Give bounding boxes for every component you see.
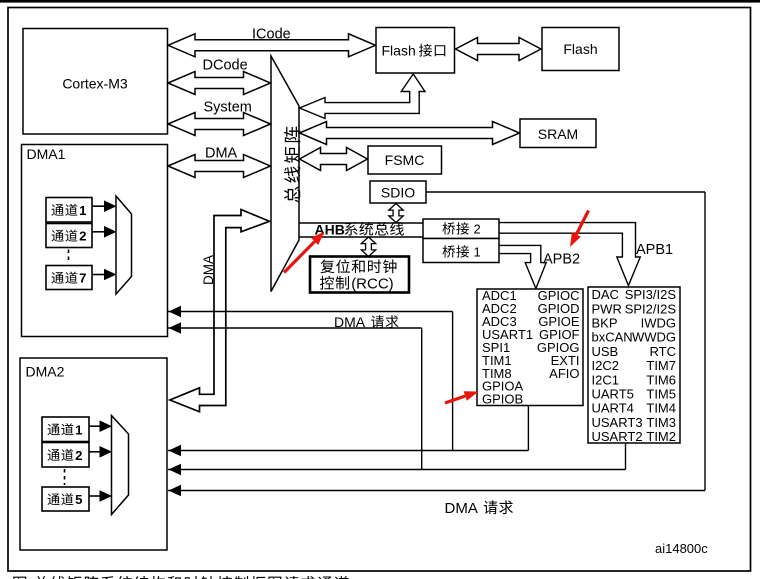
svg-text:ai14800c: ai14800c [655,541,708,556]
svg-text:USART2: USART2 [592,429,643,444]
svg-text:TIM5: TIM5 [646,387,676,402]
svg-text:USB: USB [592,344,619,359]
mux trapezoid DMA2 [112,416,129,515]
wire DMA request L2 [168,327,422,329]
red annotation arrow 2 [576,211,588,235]
wire DMA2-CH1 to mux [89,425,101,427]
svg-text:2: 2 [75,448,82,463]
svg-text:WWDG: WWDG [632,330,676,345]
svg-text:System: System [204,100,252,116]
wire DMA request into DMA2 (from rail) [168,490,705,492]
svg-text:GPIOB: GPIOB [482,392,523,407]
svg-text:DMA1: DMA1 [27,146,66,162]
svg-text:SPI2/I2S: SPI2/I2S [625,301,677,316]
block bridge2 [423,219,499,239]
svg-text:RTC: RTC [650,344,676,359]
top rule [0,0,760,3]
block DMA2 [20,358,167,550]
wire DMA request L3 [168,450,528,452]
block Cortex-M3 [23,29,168,135]
block APB2 peripherals [477,289,583,406]
arrow AHB-RCC [361,237,375,257]
arrow SDIO-AHB [389,204,403,223]
svg-text:1: 1 [474,245,481,260]
svg-text:TIM7: TIM7 [646,358,676,373]
block DMA1 [22,145,168,337]
svg-text:IWDG: IWDG [641,316,676,331]
bus matrix trapezoid [271,56,299,292]
svg-text:PWR: PWR [592,301,622,316]
svg-text:TIM6: TIM6 [646,372,676,387]
bus arrow matrix to Flash interface [300,74,426,119]
svg-text:bxCAN: bxCAN [592,330,633,345]
svg-text:DCode: DCode [203,58,248,74]
bus arrow ICode [168,34,376,57]
svg-text:(RCC): (RCC) [351,276,394,293]
svg-text:SRAM: SRAM [538,126,578,142]
bus arrow APB2 [499,245,546,288]
block SRAM [520,119,596,148]
svg-text:2: 2 [474,222,481,237]
svg-text:USART3: USART3 [592,415,643,430]
channel box DMA2-CH5 [42,487,89,511]
svg-text:I2C1: I2C1 [592,372,619,387]
wire DMA request L1 [168,311,453,313]
svg-text:AFIO: AFIO [549,366,579,381]
svg-text:Flash: Flash [382,43,416,59]
block SDIO [370,181,426,203]
wire DMA1-CH2 to mux [92,231,105,233]
svg-text:Cortex-M3: Cortex-M3 [62,76,128,92]
svg-text:FSMC: FSMC [385,152,425,168]
svg-text:ICode: ICode [252,27,291,43]
wire APB2 box to L3 [527,406,529,451]
channel box DMA1-CH2 [46,224,92,248]
svg-text:DMA2: DMA2 [26,364,65,380]
wire AHB bus upper [299,222,423,224]
svg-text:TIM2: TIM2 [646,429,676,444]
wire DMA request L4 [168,469,626,471]
svg-text:TIM3: TIM3 [646,415,676,430]
svg-text:DMA: DMA [201,255,216,285]
svg-text:TIM4: TIM4 [646,401,676,416]
caption stub (clipped) [13,577,26,579]
channel box DMA2-CH2 [42,443,89,468]
block APB1 peripherals [588,287,680,443]
channel box DMA2-CH1 [42,417,89,442]
svg-text:1: 1 [75,422,82,437]
mux trapezoid DMA1 [116,196,132,294]
svg-text:Flash: Flash [563,41,597,57]
bus arrow SRAM [300,122,520,145]
wire DMA1-CH7 to mux [92,274,105,276]
wire APB1 box to L4 [625,443,627,470]
bus arrow DMA1-to-matrix [168,155,271,178]
wire L1 drop [452,312,454,451]
bus arrow APB1 [499,223,640,286]
bus arrow FSMC [300,148,368,171]
svg-text:APB2: APB2 [543,252,580,268]
wire DMA1-CH1 to mux [92,205,105,207]
dashed link DMA1 channels [68,250,70,264]
wire DMA2-CH2 to mux [89,451,101,453]
svg-text:DMA: DMA [205,146,238,162]
bus matrix label [284,186,300,202]
svg-text:5: 5 [75,492,82,507]
wire DMA2-CH5 to mux [89,495,101,497]
wire right rail down [704,192,706,491]
wire L2 drop [421,328,423,470]
channel box DMA1-CH1 [46,198,92,223]
block RCC [310,257,409,293]
svg-text:BKP: BKP [592,316,618,331]
dashed link DMA2 channels [64,469,66,485]
svg-text:1: 1 [79,203,86,218]
block FSMC [368,146,442,174]
svg-text:DAC: DAC [592,287,619,302]
wire SDIO to right rail [426,191,705,193]
red annotation arrow 1 [284,242,315,273]
channel box DMA1-CH7 [46,266,92,290]
svg-text:UART4: UART4 [592,401,634,416]
bus arrow FlashIF-Flash [456,38,542,61]
block Flash interface [376,28,455,74]
svg-text:SPI3/I2S: SPI3/I2S [625,287,677,302]
svg-text:7: 7 [79,271,86,286]
block bridge1 [423,239,499,263]
bus path DMA2 to matrix [170,210,270,412]
svg-text:SDIO: SDIO [381,185,415,201]
svg-text:DMA: DMA [445,500,478,517]
svg-text:2: 2 [79,229,86,244]
svg-text:APB1: APB1 [636,242,673,258]
bus arrow System [168,113,271,136]
svg-text:UART5: UART5 [592,387,634,402]
block Flash [542,28,619,71]
bus arrow DCode [168,72,271,95]
svg-text:DMA: DMA [334,314,366,330]
svg-text:I2C2: I2C2 [592,358,619,373]
wire AHB bus lower [299,236,423,238]
red annotation arrow 3 [445,396,465,403]
